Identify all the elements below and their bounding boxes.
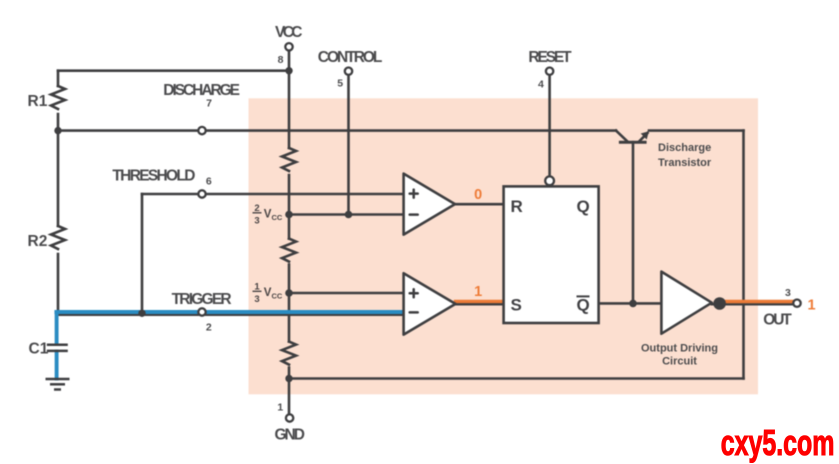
svg-text:OUT: OUT (763, 311, 792, 328)
svg-text:7: 7 (206, 97, 212, 109)
svg-text:Q: Q (577, 197, 590, 216)
svg-text:Output Driving: Output Driving (641, 343, 718, 355)
svg-text:C1: C1 (29, 341, 49, 358)
svg-text:3: 3 (785, 287, 791, 299)
svg-text:R1: R1 (28, 93, 48, 110)
svg-text:Q: Q (577, 296, 590, 315)
svg-text:1: 1 (474, 284, 482, 300)
svg-text:4: 4 (538, 78, 544, 90)
svg-text:1: 1 (277, 402, 283, 414)
svg-text:6: 6 (206, 176, 212, 188)
svg-text:CC: CC (272, 213, 283, 222)
svg-text:8: 8 (278, 54, 284, 66)
svg-text:3: 3 (254, 216, 259, 227)
svg-text:cxy5.com: cxy5.com (721, 422, 835, 463)
svg-text:Transistor: Transistor (658, 157, 712, 169)
svg-text:DISCHARGE: DISCHARGE (163, 82, 240, 99)
svg-text:S: S (511, 296, 522, 315)
svg-text:CONTROL: CONTROL (318, 49, 383, 66)
svg-text:GND: GND (275, 427, 305, 444)
svg-text:Discharge: Discharge (658, 142, 711, 154)
svg-text:Circuit: Circuit (662, 356, 697, 368)
svg-text:RESET: RESET (528, 49, 572, 66)
svg-text:TRIGGER: TRIGGER (172, 291, 232, 308)
svg-text:THRESHOLD: THRESHOLD (112, 168, 195, 185)
svg-text:2: 2 (206, 321, 212, 333)
svg-text:VCC: VCC (275, 24, 303, 41)
svg-text:R2: R2 (28, 233, 48, 250)
svg-text:1: 1 (808, 298, 816, 314)
svg-text:CC: CC (272, 292, 283, 301)
svg-text:5: 5 (337, 78, 343, 90)
svg-text:0: 0 (474, 187, 482, 203)
svg-text:R: R (511, 197, 523, 216)
svg-text:3: 3 (254, 294, 259, 305)
